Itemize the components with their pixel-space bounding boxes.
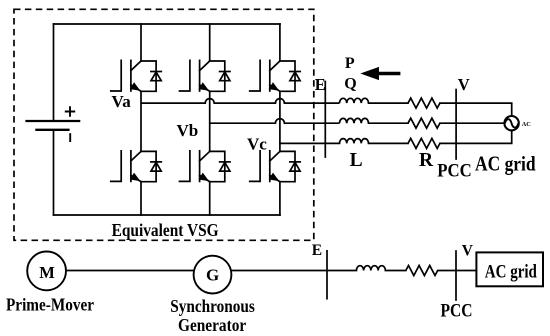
svg-text:Vb: Vb: [177, 121, 199, 140]
wire leg c lower (lower IGBT to bottom rail): [279, 182, 281, 215]
bus bar V (top circuit): [455, 90, 457, 160]
svg-text:Vc: Vc: [247, 135, 267, 154]
svg-text:Generator: Generator: [178, 315, 246, 335]
IGBT S3 upper phase-b with antiparallel diode: [180, 60, 231, 91]
inductor La: [340, 98, 369, 103]
power flow arrow: [360, 67, 400, 80]
dashed Equivalent VSG boundary box: [14, 9, 314, 240]
svg-text:Prime-Mover: Prime-Mover: [6, 295, 94, 315]
svg-text:M: M: [39, 263, 55, 282]
svg-text:E: E: [315, 75, 326, 94]
svg-text:P: P: [345, 55, 355, 72]
wire left edge lower (battery to bottom rail): [53, 130, 55, 215]
wire phase c output: [280, 142, 340, 144]
wire leg c middle (upper IGBT to lower IGBT): [279, 91, 281, 151]
wire phase b output with crossover hop: [210, 119, 340, 124]
inductor Lc: [340, 139, 369, 144]
svg-text:PCC: PCC: [437, 161, 472, 182]
wire inductor to resistor (bottom): [385, 270, 405, 272]
svg-text:AC grid: AC grid: [485, 261, 537, 282]
wire La to R: [369, 102, 409, 104]
IGBT S4 lower phase-b with antiparallel diode: [180, 151, 231, 182]
wire leg a lower (lower IGBT to bottom rail): [140, 182, 142, 215]
svg-text:AC: AC: [522, 121, 532, 128]
wire phase a corner down to AC source: [511, 103, 513, 116]
svg-text:PCC: PCC: [441, 301, 473, 322]
bus bar V (bottom circuit): [455, 251, 457, 300]
DC bottom rail wire: [54, 214, 281, 216]
svg-text:V: V: [462, 243, 474, 260]
svg-text:AC grid: AC grid: [475, 151, 536, 175]
resistor (bottom line resistance): [406, 266, 438, 276]
wire phase c corner up to AC source: [511, 130, 513, 143]
wire leg a upper (rail to upper IGBT): [140, 24, 142, 61]
wire leg b middle (upper IGBT to lower IGBT): [209, 91, 211, 151]
wire Lb to R: [369, 122, 409, 124]
svg-text:Equivalent VSG: Equivalent VSG: [112, 220, 219, 240]
wire G to line inductor: [232, 270, 357, 272]
IGBT S2 lower phase-a with antiparallel diode: [111, 151, 162, 182]
svg-text:V: V: [458, 75, 470, 94]
wire leg b upper (rail to upper IGBT): [209, 24, 211, 61]
wire leg c upper (rail to upper IGBT): [279, 24, 281, 61]
resistor Rc: [408, 138, 440, 148]
inductor (bottom line reactance): [356, 266, 385, 271]
IGBT S1 upper phase-a with antiparallel diode: [111, 60, 162, 91]
wire Lc to R: [369, 142, 409, 144]
svg-text:L: L: [350, 150, 363, 171]
DC top rail wire: [54, 23, 281, 25]
wire Rc to grid: [440, 142, 512, 144]
svg-text:Q: Q: [344, 75, 356, 92]
svg-text:Synchronous: Synchronous: [170, 296, 255, 316]
wire Rb to grid: [440, 122, 505, 124]
wire leg b lower (lower IGBT to bottom rail): [209, 182, 211, 215]
svg-text:G: G: [206, 266, 219, 285]
AC source circle: [504, 116, 518, 130]
battery DC source: positive plate: [25, 120, 80, 122]
resistor Ra: [408, 98, 440, 108]
svg-text:E: E: [312, 242, 322, 259]
IGBT S6 lower phase-c with antiparallel diode: [250, 151, 300, 182]
wire phase a output with crossover hops: [141, 99, 340, 103]
battery DC source: negative plate: [35, 129, 69, 131]
wire Ra to grid: [440, 102, 512, 104]
battery plus sign: [65, 106, 75, 116]
inductor Lb: [340, 118, 369, 123]
AC grid box: [476, 252, 543, 286]
bus bar E (bottom circuit): [326, 251, 328, 299]
wire leg a middle (upper IGBT to lower IGBT): [140, 91, 142, 151]
svg-text:R: R: [419, 150, 434, 171]
svg-text:Va: Va: [112, 92, 132, 111]
bus bar E (top circuit): [324, 82, 326, 158]
wire M to G: [66, 270, 193, 272]
wire left edge upper (top rail to battery): [53, 24, 55, 121]
wire resistor to AC grid box: [438, 270, 477, 272]
IGBT S5 upper phase-c with antiparallel diode: [250, 60, 300, 91]
AC source sine wave: [505, 119, 518, 127]
machine M circle (prime mover): [27, 252, 66, 291]
resistor Rb: [408, 118, 440, 128]
machine G circle (synchronous generator): [194, 256, 232, 294]
battery minus sign (vertical tick): [69, 133, 71, 142]
